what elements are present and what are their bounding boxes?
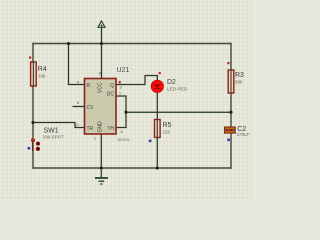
- pin marker Q wire: [119, 81, 121, 83]
- svg-text:R: R: [87, 83, 91, 89]
- pin number 3 (Q): [120, 85, 123, 90]
- label C2: [237, 126, 246, 133]
- svg-text:GND: GND: [98, 121, 104, 133]
- value 220: [163, 130, 171, 135]
- pin marker R3 top: [227, 62, 229, 64]
- junction left vertical / TR branch: [31, 121, 34, 124]
- svg-text:R3: R3: [235, 72, 244, 79]
- label U21: [117, 67, 130, 74]
- resistor R3: [228, 70, 234, 93]
- pin number 1 (GND): [94, 136, 97, 141]
- pin name Q: [110, 83, 114, 89]
- junction DC-TH loop / horizontal wire: [124, 111, 127, 114]
- pin number 7 (DC): [119, 91, 122, 96]
- pin number 6 (TH): [121, 129, 124, 134]
- svg-text:TR: TR: [87, 126, 94, 132]
- svg-text:U21: U21: [117, 67, 130, 74]
- wire LED cathode to R5: [156, 92, 158, 120]
- pin marker SW1 top: [32, 138, 34, 140]
- svg-text:R5: R5: [163, 122, 172, 129]
- svg-text:DC: DC: [107, 92, 115, 98]
- label R3: [235, 72, 244, 79]
- label R4: [38, 66, 47, 73]
- value 10k: [38, 74, 46, 79]
- pin number 2 (TR): [76, 122, 79, 127]
- LED D2: [151, 80, 163, 92]
- junction on top rail at reset branch: [67, 42, 70, 45]
- wire R5 to bottom rail: [156, 137, 158, 169]
- wire CV pin stub: [73, 106, 85, 108]
- wire Q output to LED (stepped): [116, 76, 157, 85]
- wire bottom ground rail: [33, 167, 231, 169]
- power symbol VCC arrow: [98, 21, 105, 27]
- wire reset pin branch from top rail: [69, 44, 85, 85]
- value NE555: [118, 137, 131, 142]
- svg-text:VCC: VCC: [98, 82, 104, 93]
- wire DC/TH node to R3/C2 node: [126, 111, 231, 113]
- value 68k: [235, 80, 243, 85]
- junction R3 / C2 / horizontal wire: [229, 111, 232, 114]
- wire VCC pin drop from rail to U21: [101, 27, 103, 79]
- marker blue C2: [227, 139, 230, 142]
- svg-text:LED-RED: LED-RED: [167, 87, 188, 92]
- svg-text:CV: CV: [87, 105, 95, 111]
- pin number 8 (VCC): [99, 71, 102, 76]
- pin name TR: [87, 126, 94, 132]
- switch SW1: [32, 139, 41, 151]
- grid background: [0, 0, 253, 199]
- svg-text:10k: 10k: [38, 74, 46, 79]
- svg-text:SW1: SW1: [44, 128, 59, 135]
- label SW1: [44, 128, 59, 135]
- value SW-SPST: [43, 135, 64, 140]
- svg-text:Q: Q: [110, 83, 114, 89]
- pin number 4 (R): [77, 80, 80, 85]
- junction bottom rail at R5: [156, 166, 159, 169]
- pin number 5 (CV): [77, 100, 80, 105]
- wire top VCC rail: [33, 43, 231, 45]
- pin name DC: [107, 92, 115, 98]
- junction on top rail at VCC drop: [100, 42, 103, 45]
- marker blue SW1: [28, 147, 31, 150]
- svg-text:SW-SPST: SW-SPST: [43, 135, 64, 140]
- resistor R5: [155, 120, 161, 138]
- pin name VCC (rotated): [98, 82, 104, 93]
- op-amp U1: 555 timer body U21: [85, 79, 117, 135]
- svg-text:220: 220: [163, 130, 171, 135]
- svg-text:68k: 68k: [235, 80, 243, 85]
- value LED-RED: [167, 87, 188, 92]
- pin name CV: [87, 105, 95, 111]
- svg-text:TH: TH: [107, 126, 114, 132]
- pin name TH: [107, 126, 114, 132]
- ground: [95, 168, 108, 184]
- pin name GND (rotated): [98, 121, 104, 133]
- svg-text:NE555: NE555: [118, 137, 131, 142]
- svg-text:470uF: 470uF: [236, 132, 250, 137]
- svg-text:D2: D2: [167, 79, 176, 86]
- marker blue R5: [149, 140, 152, 143]
- wire left vertical (rail to R4 to SW1 to rail): [32, 43, 34, 169]
- label D2: [167, 79, 176, 86]
- wire GND pin of U21 to bottom rail: [100, 134, 102, 168]
- junction bottom rail at GND pin: [100, 166, 103, 169]
- label R5: [163, 122, 172, 129]
- pin marker R4 top: [29, 57, 31, 59]
- pin marker D2 top: [159, 72, 161, 74]
- wire DC to TH loop: [116, 96, 126, 128]
- svg-text:R4: R4: [38, 66, 47, 73]
- value 470uF: [236, 132, 250, 137]
- wire TR pin branch from left vertical: [33, 123, 85, 128]
- capacitor C2: [225, 127, 236, 133]
- pin name R: [87, 83, 91, 89]
- wire right vertical (rail to R3 to C2 to rail): [230, 43, 232, 169]
- resistor R4: [31, 62, 37, 86]
